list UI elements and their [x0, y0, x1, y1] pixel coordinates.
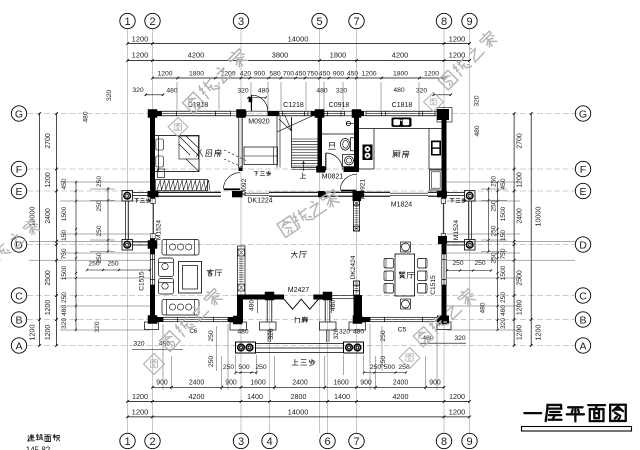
svg-text:450: 450 — [319, 71, 331, 78]
bath shower partition — [322, 121, 354, 134]
svg-text:1200: 1200 — [132, 51, 149, 60]
svg-text:1600: 1600 — [250, 380, 265, 387]
bath wash basin — [343, 155, 356, 167]
svg-text:2: 2 — [149, 436, 155, 448]
svg-text:145.82: 145.82 — [26, 446, 51, 450]
svg-text:250: 250 — [500, 292, 507, 303]
porch entry steps — [256, 344, 344, 353]
bottom dimension row 1200 4200 1400 2800 1400 4200 1200 — [126, 392, 471, 403]
screen partition hall-dining upper — [354, 201, 360, 232]
label steps up — [292, 359, 298, 365]
label kitchen — [393, 151, 400, 158]
label bath — [328, 143, 335, 150]
svg-text:150: 150 — [500, 230, 507, 241]
columns at wall intersections — [148, 108, 452, 325]
svg-text:250: 250 — [96, 176, 103, 187]
title underline bar — [522, 427, 632, 432]
svg-text:320: 320 — [500, 318, 507, 329]
svg-text:480: 480 — [258, 88, 270, 95]
dining end stools — [401, 242, 411, 309]
svg-text:420: 420 — [240, 71, 252, 78]
svg-text:250: 250 — [96, 225, 103, 236]
svg-text:250: 250 — [208, 356, 215, 368]
top dimension row 1200 4200 3800 1800 4200 1200 — [126, 51, 471, 62]
svg-text:320: 320 — [61, 318, 68, 329]
extension lines left — [29, 182, 150, 330]
left porch 250 dim chain — [90, 176, 115, 264]
label porch — [295, 317, 300, 323]
bottom dimension row 1200 14000 1200 — [126, 408, 471, 419]
svg-text:2400: 2400 — [517, 208, 524, 223]
under-stair storage cabinet — [244, 147, 278, 165]
bed parents room — [155, 136, 200, 172]
svg-text:1: 1 — [124, 16, 130, 28]
svg-text:1200: 1200 — [45, 300, 52, 315]
svg-text:1200: 1200 — [517, 172, 524, 187]
svg-text:250: 250 — [380, 356, 387, 368]
label left porch steps down — [134, 198, 138, 202]
svg-text:480: 480 — [393, 87, 405, 94]
toilet — [340, 138, 354, 151]
svg-text:250: 250 — [208, 330, 215, 342]
svg-text:M1524: M1524 — [155, 220, 162, 240]
svg-text:1800: 1800 — [189, 71, 204, 78]
svg-text:500: 500 — [238, 364, 250, 371]
svg-text:G: G — [15, 108, 23, 120]
svg-text:8: 8 — [441, 436, 447, 448]
svg-text:250: 250 — [88, 261, 99, 268]
door M0921 bedroom leaf and arc — [223, 173, 240, 190]
svg-text:C1515: C1515 — [430, 275, 437, 295]
axis circles top 1 2 3 5 7 8 9 — [120, 13, 477, 28]
svg-text:B: B — [579, 314, 586, 326]
door M0920 back door leaf and arc — [249, 95, 268, 111]
svg-text:2400: 2400 — [393, 380, 408, 387]
right small dims 320 480 250 250 — [446, 95, 492, 313]
svg-text:250: 250 — [474, 260, 485, 267]
svg-text:F: F — [580, 164, 586, 176]
svg-text:320: 320 — [268, 328, 275, 339]
svg-text:1200: 1200 — [517, 300, 524, 315]
svg-text:C1218: C1218 — [283, 102, 304, 109]
svg-text:D: D — [579, 239, 587, 251]
svg-text:250: 250 — [491, 200, 498, 211]
axis grid lines — [27, 29, 575, 433]
label dining room — [399, 272, 405, 279]
top small offset dims 320/480 — [106, 87, 452, 101]
svg-text:2700: 2700 — [45, 133, 52, 148]
stair flight risers — [277, 114, 318, 170]
svg-text:250: 250 — [96, 200, 103, 211]
svg-text:3: 3 — [238, 16, 244, 28]
wall left exterior axis2 — [150, 111, 155, 322]
stair direction arrow up — [302, 162, 304, 172]
svg-text:B: B — [15, 314, 22, 326]
door M0921 kitchen door leaf and arc — [340, 174, 356, 190]
svg-text:480: 480 — [237, 329, 248, 336]
svg-text:320: 320 — [416, 88, 428, 95]
svg-text:2400: 2400 — [45, 208, 52, 223]
svg-text:900: 900 — [225, 380, 237, 387]
dining west wall bottom — [353, 195, 363, 322]
window C6 living bottom — [163, 317, 228, 321]
svg-text:700: 700 — [283, 71, 295, 78]
left side porch columns and railing — [122, 191, 150, 251]
svg-text:250: 250 — [491, 176, 498, 187]
svg-text:1200: 1200 — [449, 35, 466, 44]
svg-text:250: 250 — [491, 252, 498, 263]
right side porch columns and railing — [447, 191, 475, 251]
svg-text:E: E — [15, 186, 22, 198]
svg-text:G: G — [579, 108, 587, 120]
axis circles right G F E D C B A — [575, 106, 590, 353]
watermark center hall — [277, 187, 342, 237]
svg-text:1200: 1200 — [517, 325, 524, 340]
svg-text:M1824: M1824 — [391, 202, 413, 209]
svg-text:10000: 10000 — [534, 207, 543, 227]
door M1524 right porch door — [441, 199, 445, 239]
left dimension chain 2700 1200 2400 150 750 2500 1200 1200 — [45, 112, 58, 347]
svg-text:14000: 14000 — [288, 408, 309, 417]
svg-text:250: 250 — [61, 292, 68, 303]
svg-text:480: 480 — [316, 88, 328, 95]
sofa three-seat top — [162, 240, 199, 256]
wall C hall front — [237, 295, 354, 323]
armchair lower — [159, 279, 174, 295]
svg-text:2400: 2400 — [292, 380, 307, 387]
window C1818 bedroom top — [162, 111, 231, 115]
svg-text:320: 320 — [339, 329, 350, 336]
svg-text:320: 320 — [106, 90, 113, 102]
svg-text:900: 900 — [333, 71, 345, 78]
svg-text:4200: 4200 — [392, 51, 409, 60]
label living room — [207, 269, 213, 276]
svg-text:M0821: M0821 — [322, 174, 344, 181]
svg-text:480: 480 — [500, 305, 507, 316]
svg-text:2700: 2700 — [517, 133, 524, 148]
kitchen sink double basin — [392, 118, 412, 127]
bedroom leader dashes — [224, 150, 247, 167]
axis circles left G F E D C B A — [11, 106, 26, 353]
right porch 250 dim chain — [481, 176, 507, 264]
svg-text:E: E — [579, 186, 586, 198]
svg-text:M2427: M2427 — [288, 287, 310, 294]
svg-text:450: 450 — [61, 178, 68, 189]
svg-text:9: 9 — [466, 436, 472, 448]
screen partition hall-dining lower — [354, 281, 360, 295]
svg-text:1500: 1500 — [500, 206, 507, 221]
svg-text:750: 750 — [61, 248, 68, 259]
label hall — [291, 251, 297, 258]
svg-text:M1524: M1524 — [453, 220, 460, 240]
svg-text:1200: 1200 — [157, 71, 172, 78]
svg-text:900: 900 — [254, 71, 266, 78]
svg-text:A: A — [15, 340, 22, 352]
label stair up char — [300, 173, 306, 179]
svg-text:450: 450 — [347, 71, 359, 78]
kitchen stove two burners — [363, 145, 373, 161]
svg-text:F: F — [16, 164, 22, 176]
svg-text:900: 900 — [156, 380, 168, 387]
svg-text:320: 320 — [237, 88, 249, 95]
svg-text:DK1224: DK1224 — [247, 198, 272, 205]
svg-text:450: 450 — [295, 71, 307, 78]
dining chairs left — [384, 259, 394, 294]
svg-text:C: C — [15, 290, 23, 302]
top dimension row 1200-14000-1200 — [126, 35, 471, 45]
svg-text:250: 250 — [491, 225, 498, 236]
svg-text:480: 480 — [249, 300, 256, 311]
wall B living room bottom — [150, 317, 244, 322]
extension lines top — [177, 82, 419, 110]
svg-text:2: 2 — [149, 16, 155, 28]
svg-text:3800: 3800 — [272, 51, 289, 60]
svg-text:250: 250 — [223, 364, 235, 371]
wall E middle horizontal — [148, 191, 448, 198]
svg-text:2400: 2400 — [189, 380, 204, 387]
svg-text:320: 320 — [474, 95, 481, 106]
bottom porch dims 250 500 250 — [208, 326, 410, 374]
coffee table — [179, 262, 202, 294]
door M0821 bath door leaf and arc — [326, 153, 343, 170]
svg-text:6: 6 — [324, 436, 330, 448]
watermark top right with diamond seal — [438, 29, 499, 90]
svg-text:250: 250 — [255, 364, 267, 371]
porch wall footings — [145, 322, 452, 330]
svg-text:7: 7 — [353, 16, 359, 28]
svg-text:480: 480 — [83, 111, 90, 122]
left dimension chain 10000/1200 — [28, 112, 41, 347]
svg-text:580: 580 — [269, 71, 281, 78]
door M1524 left porch door — [151, 199, 155, 239]
door M2427 folding door zigzag — [284, 299, 318, 309]
stair winder treads and break line — [277, 114, 318, 133]
right dimension chain 2700 1200 2400 150 750 2500 1200 1200 — [513, 112, 524, 347]
svg-text:250: 250 — [452, 260, 463, 267]
svg-text:1200: 1200 — [534, 325, 543, 341]
svg-text:1200: 1200 — [45, 172, 52, 187]
svg-text:1600: 1600 — [333, 380, 348, 387]
porch vertical dim lines — [257, 299, 259, 313]
svg-text:1200: 1200 — [132, 35, 149, 44]
svg-text:250: 250 — [107, 261, 118, 268]
svg-text:C1818: C1818 — [392, 102, 413, 109]
screen partition living-hall with glazing — [238, 246, 246, 295]
wall G top exterior — [150, 111, 447, 116]
kitchen fridge — [431, 141, 441, 156]
svg-text:480: 480 — [61, 305, 68, 316]
kitchen pantry cabinet — [430, 170, 443, 190]
bedside table — [157, 169, 164, 177]
svg-text:9: 9 — [466, 16, 472, 28]
svg-text:1200: 1200 — [132, 392, 148, 401]
svg-text:1400: 1400 — [334, 392, 350, 401]
svg-text:320: 320 — [94, 321, 101, 332]
svg-text:320: 320 — [132, 87, 144, 94]
svg-text:480: 480 — [166, 88, 178, 95]
svg-text:C6: C6 — [189, 328, 197, 335]
svg-text:C5: C5 — [398, 327, 407, 334]
watermark over bedroom with diamond seal — [168, 118, 188, 137]
svg-text:2500: 2500 — [45, 270, 52, 285]
wardrobe with hangers — [156, 180, 210, 191]
left inner dimension chain 450 1500 150 750 1500 250 480 320 — [61, 178, 77, 331]
svg-text:1800: 1800 — [393, 71, 408, 78]
watermark left edge — [0, 217, 41, 273]
porch column base left with twin round columns — [236, 342, 256, 353]
svg-text:M0920: M0920 — [248, 119, 270, 126]
svg-text:1: 1 — [124, 436, 130, 448]
bedroom right wall partition — [239, 116, 242, 171]
svg-text:900: 900 — [429, 380, 441, 387]
svg-text:1200: 1200 — [449, 408, 466, 417]
kitchen counter — [359, 129, 442, 170]
svg-text:A: A — [579, 340, 586, 352]
svg-text:5: 5 — [316, 16, 322, 28]
sofa three-seat bottom — [162, 300, 199, 316]
svg-text:750: 750 — [500, 248, 507, 259]
svg-text:320: 320 — [454, 335, 465, 342]
window C1818 kitchen top — [366, 111, 435, 115]
svg-text:2800: 2800 — [291, 392, 307, 401]
svg-text:1400: 1400 — [247, 392, 263, 401]
porch column base right with twin round columns — [344, 342, 364, 353]
svg-text:M092: M092 — [241, 178, 248, 195]
svg-text:1200: 1200 — [424, 71, 439, 78]
svg-text:150: 150 — [61, 230, 68, 241]
label parents room — [196, 150, 202, 157]
svg-text:480: 480 — [353, 329, 364, 336]
right inner dimension chain 450 1500 150 750 1500 250 480 320 — [497, 178, 508, 331]
wall F bath bottom — [318, 167, 360, 172]
watermark bottom left — [144, 354, 165, 375]
window C1515 right wall — [442, 254, 446, 285]
svg-text:DK2424: DK2424 — [350, 255, 357, 279]
svg-text:1200: 1200 — [45, 325, 52, 340]
svg-text:320: 320 — [336, 88, 348, 95]
dining chairs right — [418, 259, 428, 294]
window C0918 bath top — [324, 111, 345, 115]
svg-text:480: 480 — [480, 302, 487, 313]
window C1515 left wall — [150, 254, 154, 285]
bottom dimension row 900 2400 900 1600 2400 1600 900 2400 900 — [151, 380, 445, 389]
svg-text:1200: 1200 — [28, 325, 37, 341]
svg-text:480: 480 — [330, 300, 337, 311]
svg-text:1200: 1200 — [449, 392, 465, 401]
title first floor plan — [524, 412, 541, 414]
svg-text:3: 3 — [238, 436, 244, 448]
svg-text:C0918: C0918 — [329, 102, 350, 109]
svg-text:480: 480 — [474, 125, 481, 136]
svg-text:7: 7 — [353, 436, 359, 448]
svg-text:4200: 4200 — [393, 392, 409, 401]
svg-text:1500: 1500 — [61, 206, 68, 221]
svg-text:4200: 4200 — [188, 51, 205, 60]
window C1218 stair top — [279, 111, 308, 115]
extension lines right — [447, 182, 575, 330]
svg-text:4: 4 — [266, 436, 272, 448]
svg-text:1800: 1800 — [330, 51, 347, 60]
svg-text:450: 450 — [500, 178, 507, 189]
wall right exterior axis8 — [442, 111, 447, 322]
extension lines bottom — [163, 324, 437, 390]
porch side walls — [267, 300, 330, 343]
svg-text:750: 750 — [307, 71, 319, 78]
svg-text:320: 320 — [133, 341, 144, 348]
kitchen left wall axis7 — [354, 116, 359, 172]
svg-text:C: C — [579, 290, 587, 302]
label building area — [28, 435, 35, 441]
label stairwell steps down — [254, 172, 259, 176]
axis circles bottom 1 2 3 4 6 7 8 9 — [120, 433, 477, 448]
watermark bottom right — [399, 348, 420, 369]
svg-text:14000: 14000 — [288, 35, 309, 44]
dining table — [395, 254, 415, 296]
window C5 dining bottom — [370, 317, 437, 321]
wall B dining bottom — [356, 317, 449, 322]
left small dims 320 480 250 250 — [83, 111, 152, 332]
label right porch steps down — [450, 198, 454, 202]
svg-text:8: 8 — [441, 16, 447, 28]
svg-text:4200: 4200 — [189, 392, 205, 401]
bath left wall axis5 — [318, 116, 323, 167]
svg-text:1200: 1200 — [361, 71, 376, 78]
top dimension row segment dims — [151, 71, 445, 80]
svg-text:1200: 1200 — [132, 408, 149, 417]
svg-text:M0921: M0921 — [360, 179, 367, 199]
svg-text:C1515: C1515 — [139, 271, 146, 291]
svg-text:250: 250 — [380, 330, 387, 342]
right dimension chain 10000/1200 — [530, 112, 543, 347]
armchair upper — [159, 258, 174, 277]
